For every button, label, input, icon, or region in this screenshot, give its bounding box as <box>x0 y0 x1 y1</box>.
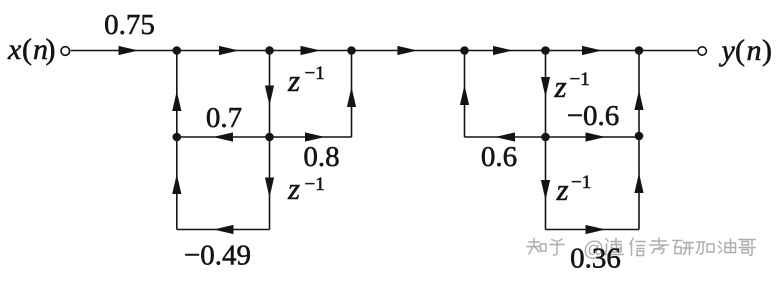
arrow: left along gain 0.6 branch <box>495 132 515 141</box>
svg-text:n: n <box>747 34 762 67</box>
wire: vertical delay line at node E (x=546, two z^-1) <box>545 51 547 230</box>
svg-text:x: x <box>7 33 22 66</box>
svg-text:z: z <box>287 63 300 98</box>
node A (junction, top x=177) <box>173 46 182 55</box>
svg-text:−1: −1 <box>305 174 325 195</box>
arrow: down through third delay <box>541 77 550 97</box>
node B (junction, top x=270) <box>265 46 274 55</box>
svg-text:0.8: 0.8 <box>303 141 339 173</box>
node G (junction, mid row x=177) <box>173 133 182 142</box>
arrow: top branch node E to node F <box>582 46 602 55</box>
arrow: up into node K (mid-right junction) <box>634 173 643 193</box>
通 <box>605 239 623 255</box>
node E (junction, top x=546) <box>541 46 550 55</box>
wire: top line from x(n) to y(n) <box>71 50 697 52</box>
考 <box>650 238 668 254</box>
wire: middle row section 1 (node H to node G and to 0.8 corner) <box>177 136 352 138</box>
wire: vertical feedback line at node A (x=177) <box>176 51 178 230</box>
svg-text:(: ( <box>735 34 745 67</box>
node J (junction, mid row x=546) <box>541 133 550 142</box>
svg-text:z: z <box>556 172 569 207</box>
wire: bottom row section 1 (gain -0.49 feedback) <box>177 229 270 231</box>
svg-text:0.75: 0.75 <box>104 9 155 41</box>
arrow: left into node G (gain 0.7 branch) <box>213 132 233 141</box>
arrow: left along -0.49 branch <box>214 225 234 234</box>
arrow: top branch node C to node D <box>397 46 417 55</box>
arrow: down through fourth delay <box>541 180 550 200</box>
arrow: up into node G (mid-left junction) <box>172 174 181 194</box>
arrow: top branch node D to node E <box>493 46 513 55</box>
wire: bottom row section 2 (gain 0.36 feedforward) <box>546 229 640 231</box>
wire: middle row section 2 (node J to 0.6 corner and to node K) <box>465 136 640 138</box>
arrow: right along 0.36 branch <box>586 225 606 234</box>
svg-text:y: y <box>719 34 736 67</box>
油 <box>719 239 736 253</box>
svg-text:z: z <box>554 69 567 104</box>
arrow: top branch node A to node B <box>219 46 239 55</box>
wire: vertical feedback line up to node D (x=465) <box>464 51 466 138</box>
node H (junction, mid row x=270) <box>265 133 274 142</box>
加 <box>697 242 715 254</box>
input terminal circle (source node) <box>61 47 70 56</box>
node K (junction, mid row x=639) <box>635 132 644 141</box>
svg-text:0.36: 0.36 <box>570 243 621 275</box>
研 <box>673 241 693 255</box>
svg-text:−1: −1 <box>305 63 325 84</box>
知 <box>527 239 546 255</box>
哥 <box>739 240 755 256</box>
node F (junction, top x=639) <box>635 46 644 55</box>
watermark 知乎 @通信考研加油哥 (drawn as gray stroke glyphs) <box>527 238 755 261</box>
arrow: top branch into node A (gain 0.75 branch) <box>119 46 139 55</box>
svg-text:): ) <box>46 33 56 66</box>
wire: vertical feedforward line up to node C (x=352) <box>351 51 353 138</box>
svg-text:−0.6: −0.6 <box>567 100 620 132</box>
svg-text:−1: −1 <box>570 69 590 90</box>
arrow: up into node D (gain 0.6 branch) <box>460 85 469 105</box>
arrow: up into node A <box>172 91 181 111</box>
arrow: down through second delay <box>265 178 274 198</box>
arrow: up into node C (gain 0.8 branch) <box>347 87 356 107</box>
svg-text:−1: −1 <box>571 172 591 193</box>
output terminal circle (sink node) <box>698 47 706 55</box>
svg-text:−0.49: −0.49 <box>184 240 251 272</box>
node D (junction, top x=465) <box>460 46 469 55</box>
node C (junction, top x=352) <box>347 46 356 55</box>
wire: vertical output summing line at node F (x=639) <box>638 51 640 230</box>
arrow: top branch node B to node C <box>301 46 321 55</box>
arrow: down through first delay <box>265 86 274 106</box>
svg-text:(: ( <box>22 33 32 66</box>
arrow: right from node H (gain 0.8 branch) <box>305 132 325 141</box>
arrow: right into node K (gain -0.6 branch) <box>586 132 606 141</box>
wire: vertical delay line at node B (x=270, two z^-1) <box>269 51 271 230</box>
乎 <box>550 239 564 255</box>
信 <box>630 239 645 256</box>
svg-text:0.6: 0.6 <box>481 141 517 173</box>
svg-text:z: z <box>287 171 300 206</box>
svg-text:): ) <box>762 34 772 67</box>
arrow: up into node F <box>634 90 643 110</box>
svg-text:0.7: 0.7 <box>206 102 242 134</box>
